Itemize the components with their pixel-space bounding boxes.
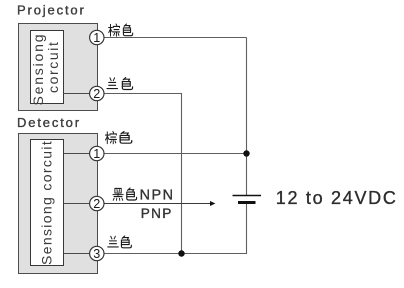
svg-text:1: 1 — [93, 147, 100, 161]
pin circle P2 — [90, 86, 104, 100]
pin circle P1 — [90, 30, 104, 44]
svg-text:PNP: PNP — [141, 206, 173, 221]
arrowhead at battery — [210, 201, 215, 206]
pin label 兰色 blue (detector pin3) — [108, 236, 119, 247]
wire: detector internal to pin1 — [64, 153, 91, 155]
pin circle D3 — [90, 246, 104, 260]
projector unit box — [19, 24, 98, 111]
wire: detector pin1 brown to junction — [104, 153, 247, 155]
pin label 黑色 black (detector pin2) — [113, 188, 123, 200]
svg-text:Sensiong corcuit: Sensiong corcuit — [38, 140, 54, 265]
svg-text:1: 1 — [93, 31, 100, 45]
projector sensing circuit block U1 — [31, 31, 64, 104]
pin label 棕色 brown (projector pin1) — [109, 24, 120, 36]
wire: projector internal to pin2 — [64, 93, 91, 95]
pin label 棕色 brown (detector pin1) — [105, 132, 116, 144]
wire: detector pin2 black output to arrow — [104, 203, 211, 205]
detector sensing circuit block U2 — [31, 140, 64, 266]
svg-text:corcuit: corcuit — [45, 41, 61, 93]
svg-text:2: 2 — [93, 87, 100, 101]
wire: detector internal to pin2 — [64, 203, 91, 205]
svg-text:Detector: Detector — [17, 115, 81, 130]
wire: projector pin1 brown to bus — [104, 37, 247, 39]
wire: detector internal to pin3 — [64, 253, 91, 255]
wire: detector pin3 blue to battery - — [104, 204, 247, 254]
pin circle D1 — [90, 146, 104, 160]
pin circle D2 — [90, 196, 104, 210]
svg-text:Sensiong: Sensiong — [30, 33, 46, 106]
svg-text:2: 2 — [93, 197, 100, 211]
svg-text:12 to 24VDC: 12 to 24VDC — [276, 188, 398, 208]
pin label 兰色 blue (projector pin2) — [107, 78, 118, 89]
wire: projector pin2 blue to blue bus — [104, 94, 182, 254]
battery BT1 plate - (short thick) — [238, 201, 256, 204]
junction dot: blue bus / detector pin3 — [178, 250, 184, 256]
detector unit box — [19, 134, 98, 274]
wire: brown bus vertical down to battery + — [246, 38, 248, 196]
junction dot: brown bus / detector pin1 — [243, 150, 249, 156]
svg-text:Projector: Projector — [17, 2, 86, 17]
battery BT1 plate + (long) — [233, 195, 262, 197]
svg-text:NPN: NPN — [140, 187, 175, 203]
svg-text:3: 3 — [93, 247, 100, 261]
